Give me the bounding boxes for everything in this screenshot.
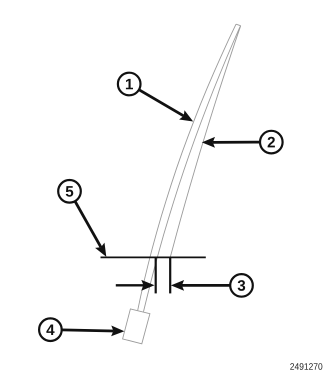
callout 5 circle <box>58 180 81 203</box>
antenna mast right edge line <box>170 26 241 260</box>
callout 3 circle <box>230 274 253 297</box>
right measurement tick <box>169 257 171 293</box>
antenna mast tip cap <box>236 24 241 26</box>
callout 5 leader arrow <box>75 201 101 247</box>
callout 4 leader arrow <box>62 330 114 331</box>
left dimension arrow <box>116 284 144 286</box>
callout 1 circle <box>118 73 141 96</box>
callout 3 leader arrow <box>182 284 230 287</box>
antenna mast left edge line <box>138 24 236 310</box>
left measurement tick <box>155 257 157 293</box>
fender reference line <box>101 256 206 258</box>
callout 4 circle <box>39 318 62 341</box>
callout 2 circle <box>260 131 283 154</box>
callout 1 leader arrow <box>139 90 184 116</box>
antenna base adapter rectangle <box>123 309 150 344</box>
antenna mast middle edge line <box>144 27 241 312</box>
callout 2 leader arrow <box>213 141 260 144</box>
figure number 2491270 <box>290 363 322 370</box>
